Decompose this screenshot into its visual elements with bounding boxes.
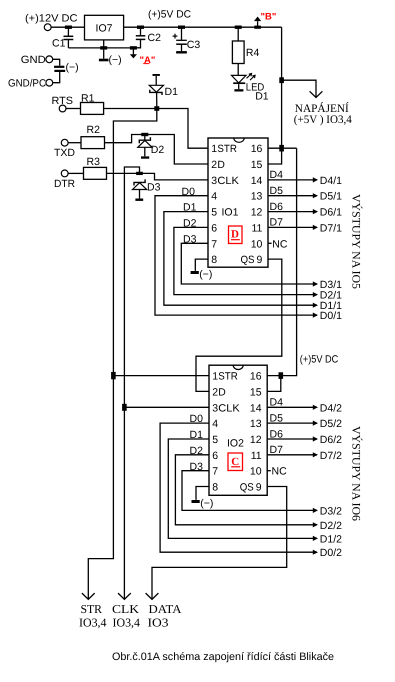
svg-text:D1/1: D1/1 [320,300,342,312]
svg-text:9: 9 [256,482,262,494]
svg-text:IO3,4: IO3,4 [113,616,141,630]
svg-text:10: 10 [251,238,263,250]
wire IO2 D1 to D1/2 [168,439,317,538]
node NAPAJENI junction [279,77,284,83]
svg-text:14: 14 [251,175,263,187]
wire IO1 QS pin9 cascade to IO2 pin2 [196,259,282,391]
wire RTS to R1 [66,108,81,110]
wire IO2 D4 output [267,406,317,408]
svg-text:(−): (−) [199,268,212,280]
wire IO1 D0 to D0/1 [155,196,317,315]
diode D2 clamp schottky [144,136,146,140]
svg-text:D1: D1 [183,202,197,214]
arrow CLK output [118,593,131,599]
svg-text:D5/2: D5/2 [320,418,342,430]
node STR at IO2 pin1 [111,372,116,379]
svg-text:D3/1: D3/1 [320,279,342,291]
svg-text:NC: NC [272,466,288,478]
wire IO2 D7 output [267,454,317,456]
svg-text:D2: D2 [190,445,204,457]
svg-text:5: 5 [212,434,218,446]
wire IO1 pin16 +5V [268,147,297,149]
svg-text:IO3: IO3 [148,616,169,630]
voltage regulator IO7 [85,15,124,40]
svg-text:13: 13 [250,418,262,430]
svg-text:6: 6 [211,222,217,234]
arrow NAPAJENI (+5V) IO3,4 [282,80,316,97]
svg-text:CLK: CLK [217,175,239,187]
svg-text:(+5V ) IO3,4: (+5V ) IO3,4 [294,114,352,126]
svg-text:D0: D0 [182,186,196,198]
wire STR to IO1 pin1 [157,109,208,149]
resistor R2 [81,137,105,149]
svg-text:TXD: TXD [54,147,75,159]
wire 12V input to IO7 [51,26,84,28]
svg-text:D4: D4 [270,397,284,409]
svg-text:CLK: CLK [112,602,139,616]
svg-text:(−): (−) [200,497,213,509]
wire IO2 D3 to D3/2 [182,471,317,511]
svg-text:15: 15 [251,159,263,171]
svg-text:D5: D5 [270,412,284,424]
node A junction [130,46,137,49]
wire IO1 D3 to D3/1 [181,243,317,284]
svg-text:5: 5 [211,207,217,219]
svg-text:NC: NC [272,238,288,250]
svg-text:D: D [231,229,239,241]
svg-text:D3: D3 [147,181,161,193]
svg-text:(+)5V DC: (+)5V DC [148,8,191,20]
svg-text:D6/2: D6/2 [320,434,342,446]
svg-text:Obr.č.01A schéma zapojení řídí: Obr.č.01A schéma zapojení řídící části B… [112,651,334,663]
svg-text:12: 12 [250,434,262,446]
svg-text:R3: R3 [87,156,101,168]
svg-text:(−): (−) [66,61,79,73]
svg-text:R1: R1 [81,92,95,104]
LED D1 [232,75,247,83]
svg-text:IO2: IO2 [227,438,244,450]
wire +5V rail to IO2 [267,148,296,375]
svg-text:11: 11 [251,222,262,234]
svg-text:STR: STR [218,371,238,383]
svg-text:(−): (−) [109,54,122,66]
node IO2 pin16 junction [279,372,284,379]
svg-text:QS: QS [241,254,255,266]
ground IO7 (-) [103,48,105,59]
wire STR bus down [88,109,157,599]
wire +5V rail corner down [281,27,283,148]
svg-text:GND: GND [21,54,46,66]
svg-text:D0: D0 [190,413,204,425]
svg-text:D5: D5 [270,185,284,197]
svg-text:12: 12 [251,207,263,219]
diode D3 clamp schottky [133,183,147,190]
capacitor C1 [67,27,69,36]
wire IO1 D1 to D1/1 [164,212,317,306]
svg-text:D1/2: D1/2 [320,533,342,545]
svg-text:D6: D6 [270,428,284,440]
svg-text:"A": "A" [140,55,156,66]
svg-text:16: 16 [251,143,263,155]
svg-text:8: 8 [211,254,217,266]
svg-text:NAPÁJENÍ: NAPÁJENÍ [295,102,349,115]
svg-text:IO7: IO7 [96,22,113,34]
wire R2 to D2 and IO1 pin2 [105,135,209,165]
arrow STR output [82,593,95,599]
wire IO7 output +5V rail [124,26,282,28]
wire TXD to R2 [68,142,81,144]
svg-text:D1: D1 [190,429,204,441]
svg-text:D0/2: D0/2 [320,547,342,559]
svg-text:IO3,4: IO3,4 [79,616,107,630]
svg-text:D6/1: D6/1 [320,207,342,219]
node CLK junction [136,172,143,175]
svg-text:D3: D3 [183,233,197,245]
resistor R1 [81,103,104,115]
wire IO1 D6 output [268,211,317,213]
wire CLK to IO2 pin3 [124,406,209,408]
svg-text:IO1: IO1 [222,206,239,218]
svg-text:14: 14 [250,402,262,414]
capacitor C3 electrolytic [178,26,185,29]
svg-text:D7: D7 [270,444,284,456]
svg-text:D7/1: D7/1 [320,222,342,234]
resistor R4 [235,26,242,29]
svg-text:D1: D1 [165,86,179,98]
svg-text:(+)12V DC: (+)12V DC [25,13,78,25]
ground GND/PC bar [54,70,65,72]
wire IO1 D7 output [268,226,317,228]
node CLK at IO2 pin3 [122,404,127,411]
svg-text:11: 11 [251,450,262,462]
svg-text:16: 16 [250,371,262,383]
svg-text:4: 4 [212,418,218,430]
svg-text:D3/2: D3/2 [320,505,342,517]
svg-text:D4: D4 [270,169,284,181]
wire CLK to IO1 pin3 [140,173,209,180]
svg-text:GND/PC: GND/PC [8,77,46,89]
node D2 junction [141,133,148,136]
ground rail under IO7 [68,47,140,49]
node C1 junction [65,26,72,29]
svg-text:D2: D2 [183,218,197,230]
capacitor C2 [137,26,144,29]
svg-text:2: 2 [212,386,218,398]
svg-text:C3: C3 [187,39,201,51]
svg-text:D: D [218,386,226,398]
svg-text:STR: STR [81,602,103,616]
wire IO2 pin15 +5V branch [267,376,281,392]
svg-text:D5/1: D5/1 [320,191,342,203]
svg-text:D2/1: D2/1 [320,290,342,302]
wire IO2 D6 output [267,438,317,440]
op-amp U1: shift register IO1 body [208,138,268,267]
svg-text:R2: R2 [87,124,101,136]
wire IO1 pin15 +5V branch [268,148,282,164]
node IO7 ground junction [103,40,105,48]
svg-text:3: 3 [211,175,217,187]
ground D3 [135,199,143,201]
svg-text:D4/1: D4/1 [320,175,342,187]
arrow DATA output [146,593,159,599]
wire R4 to LED [237,64,239,76]
svg-text:D7: D7 [270,217,284,229]
IO1 red letter D [229,226,243,244]
IO2 red letter C [228,453,243,471]
svg-text:3: 3 [212,402,218,414]
test point B arrow [254,26,261,29]
wire IO1 pin8 ground [195,259,208,271]
svg-text:"B": "B" [261,11,277,22]
svg-text:D1: D1 [255,90,269,102]
wire IO1 D2 to D2/1 [174,227,317,294]
svg-text:15: 15 [250,386,262,398]
wire CLK bus detour down [124,167,139,599]
diode D1 clamp schottky [153,74,160,76]
svg-text:7: 7 [212,466,218,478]
svg-text:10: 10 [250,466,262,478]
svg-text:1: 1 [212,371,218,383]
svg-text:DTR: DTR [54,178,75,190]
svg-text:VÝSTUPY NA IO5: VÝSTUPY NA IO5 [350,194,363,289]
op-amp U2: shift register IO2 body [209,365,267,495]
test point A arrow [132,50,134,55]
svg-text:9: 9 [257,254,263,266]
wire STR to IO2 pin1 [113,375,209,377]
ground D2 [141,156,149,158]
svg-text:STR: STR [217,143,237,155]
wire R3 to node CLK [107,172,140,174]
svg-text:6: 6 [212,450,218,462]
ground IO1 pin8 [191,271,199,274]
svg-text:R4: R4 [246,47,260,59]
wire DTR to R3 [68,172,83,174]
svg-text:C1: C1 [52,38,66,50]
svg-text:QS: QS [240,482,254,494]
svg-text:4: 4 [211,191,217,203]
svg-text:D: D [217,159,225,171]
ground IO2 pin8 [192,500,200,503]
svg-text:7: 7 [211,238,217,250]
node IO1 pin16 junction [279,145,284,152]
IO1 pin10 NC [268,242,272,244]
resistor R3 [84,167,107,179]
svg-text:D6: D6 [270,201,284,213]
svg-text:C: C [231,456,239,468]
svg-text:DATA: DATA [149,602,182,616]
svg-text:VÝSTUPY NA IO6: VÝSTUPY NA IO6 [350,426,363,521]
svg-text:D4/2: D4/2 [320,402,342,414]
wire IO2 QS pin9 to DATA [152,487,287,599]
svg-text:CLK: CLK [218,402,240,414]
svg-text:(+)5V DC: (+)5V DC [300,354,339,366]
svg-text:13: 13 [251,191,263,203]
wire IO1 D5 output [268,195,317,197]
svg-text:D2: D2 [151,144,165,156]
svg-text:2: 2 [211,159,217,171]
wire IO2 pin8 ground [196,487,209,500]
wire IO2 D5 output [267,422,317,424]
svg-text:D2/2: D2/2 [320,520,342,532]
svg-text:D3: D3 [190,461,204,473]
wire R1 to node STR [104,108,157,110]
svg-text:C2: C2 [148,32,162,44]
IO2 pin10 NC [267,470,271,472]
node STR junction [154,106,159,111]
wire IO1 D4 output [268,179,317,181]
svg-text:D7/2: D7/2 [320,450,342,462]
wire IO2 D2 to D2/2 [175,455,317,525]
wire IO2 D0 to D0/2 [160,423,317,552]
ground GND bar [54,66,64,68]
svg-text:1: 1 [211,143,217,155]
svg-text:8: 8 [212,482,218,494]
